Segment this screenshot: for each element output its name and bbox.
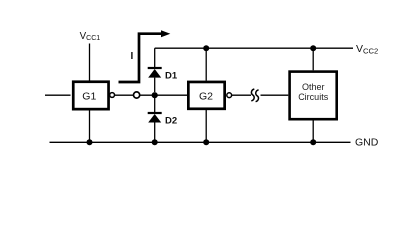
junction dot G2 top [203,45,209,51]
gate G1 [73,82,108,109]
svg-text:G1: G1 [82,90,96,102]
wire diode column top (to VCC2 rail) [154,48,156,68]
wire VCC1 stub [89,44,91,82]
node open circle [134,92,140,98]
svg-text:GND: GND [355,137,379,149]
wire break to Other Circuits [261,94,289,96]
wire G1 to GND rail [89,111,91,143]
break squiggle [251,89,258,102]
wire Other Circuits bottom stub [312,119,314,142]
wire input to G1 [45,94,71,96]
box Other Circuits [290,72,337,120]
diode D1 [148,68,162,92]
svg-text:I: I [131,51,134,62]
junction dot GND below Other Circuits [310,139,316,145]
svg-text:D1: D1 [165,71,178,82]
junction dot diode node [152,92,158,98]
wire GND rail [50,141,351,143]
bubble G1 output [110,93,115,98]
wire G2 top stub [205,48,207,80]
wire VCC2 rail [155,47,353,49]
wire G2 bottom stub [205,110,207,143]
wire node to G2 input [140,94,187,96]
wire Other Circuits top stub [312,48,314,70]
svg-text:Other: Other [302,82,325,92]
svg-text:Circuits: Circuits [298,92,329,102]
junction dot GND below G1 [87,139,93,145]
gate G2 [188,82,224,109]
svg-text:VCC1: VCC1 [80,31,101,42]
diode D2 [148,95,162,142]
junction dot GND below G2 [203,139,209,145]
svg-text:G2: G2 [199,90,213,102]
svg-text:D2: D2 [165,115,177,126]
junction dot Other Circuits top [310,45,316,51]
wire G2 output to break [232,94,251,96]
svg-text:VCC2: VCC2 [356,43,378,55]
junction dot GND below D2 [152,139,158,145]
bubble G2 output [227,93,232,98]
current arrow I [119,30,171,82]
wire G1 output to node [115,94,134,96]
